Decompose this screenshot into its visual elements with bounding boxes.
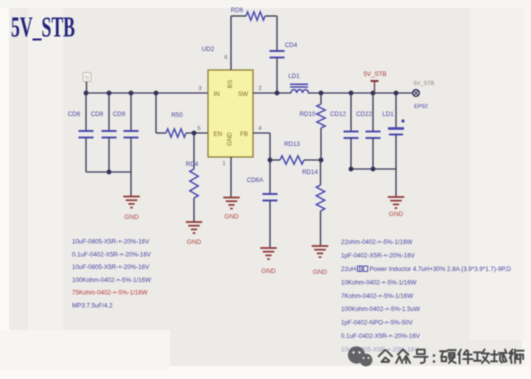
svg-text:MP3:7.5uF/4.2: MP3:7.5uF/4.2 [72,303,113,310]
svg-text:5V_STB: 5V_STB [414,81,435,87]
svg-text:CD9: CD9 [113,111,126,118]
svg-text:10uF-0805-X5R-+-20%-16V: 10uF-0805-X5R-+-20%-16V [72,239,150,246]
svg-text:75Kohm-0402-+-5%-1/16W: 75Kohm-0402-+-5%-1/16W [72,290,148,297]
svg-text:22ohm-0402-+-5%-1/16W: 22ohm-0402-+-5%-1/16W [341,239,413,246]
svg-text:RD6: RD6 [231,7,244,14]
svg-text:1pF-0402-NPO-+-5%-50V: 1pF-0402-NPO-+-5%-50V [341,320,414,327]
svg-text:10uF-0805-X5R-+-20%-16V: 10uF-0805-X5R-+-20%-16V [72,264,150,271]
svg-text:10Kohm-0402-+-5%-1/16W: 10Kohm-0402-+-5%-1/16W [341,279,417,286]
svg-text:LD1: LD1 [382,111,394,118]
svg-text:1: 1 [222,161,225,167]
svg-text:EP92: EP92 [414,104,428,110]
svg-text:IN: IN [214,91,220,98]
svg-text:CD6: CD6 [68,111,81,118]
svg-text:GND: GND [124,214,139,221]
svg-text:GND: GND [261,268,276,275]
svg-text:CD22: CD22 [356,111,372,118]
svg-text:R50: R50 [171,112,183,119]
svg-text:1pF-0402-X5R-+-20%-16V: 1pF-0402-X5R-+-20%-16V [341,253,416,260]
svg-text:Power Inductor 4.7uH+30% 2.8A: Power Inductor 4.7uH+30% 2.8A (3.9*3.9*1… [370,266,512,273]
svg-text:5V_STB: 5V_STB [11,13,75,44]
svg-text:FB: FB [240,131,248,138]
svg-text:2: 2 [258,86,261,92]
svg-text:0.1uF-0402-X5R-+-20%-16V: 0.1uF-0402-X5R-+-20%-16V [72,251,152,258]
svg-text:N: N [85,76,89,82]
svg-text:CD8: CD8 [91,111,104,118]
svg-text:7Kohm-0402-+-5%-1/16W: 7Kohm-0402-+-5%-1/16W [341,293,413,300]
svg-text:LD1: LD1 [288,73,300,80]
svg-text:RD14: RD14 [302,169,318,176]
svg-text:EN: EN [214,131,223,138]
svg-text:100Kohm-0402-+-5%-1/16W: 100Kohm-0402-+-5%-1/16W [72,277,151,284]
svg-text:GND: GND [224,214,239,221]
svg-text:RD13: RD13 [284,141,300,148]
svg-text:BS: BS [227,80,234,88]
svg-text:GND: GND [187,239,202,246]
svg-text:CD12: CD12 [330,111,346,118]
svg-text:RD4: RD4 [186,161,199,168]
svg-text:6: 6 [224,55,227,61]
svg-text:0.1uF-0402-X5R-+-20%-16V: 0.1uF-0402-X5R-+-20%-16V [341,333,421,340]
svg-text:5V_STB: 5V_STB [363,71,386,78]
svg-text:GND: GND [389,211,404,218]
svg-text:3: 3 [198,86,201,92]
svg-text:GND: GND [313,269,328,276]
svg-text:UD2: UD2 [202,46,215,53]
svg-text:GND: GND [227,132,234,146]
svg-text:CD6A: CD6A [247,177,264,184]
svg-text:100Kohm-0402-+-5%-1.5uW: 100Kohm-0402-+-5%-1.5uW [341,306,420,313]
svg-text:CD4: CD4 [285,42,298,49]
svg-text:RD10: RD10 [300,111,316,118]
svg-text:22uH-: 22uH- [341,266,358,273]
svg-text:SW: SW [238,91,248,98]
svg-text:5: 5 [197,126,200,132]
